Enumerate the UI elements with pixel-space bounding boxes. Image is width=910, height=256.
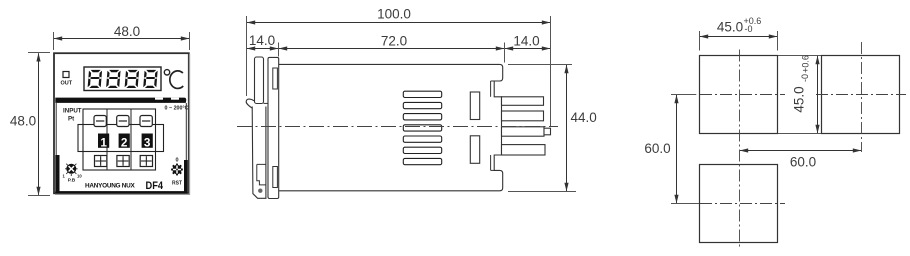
vent slot 1	[403, 91, 441, 97]
vent slot 4	[403, 125, 441, 131]
plus button col1	[95, 156, 107, 167]
dimension 45.0 +0.6/-0 (top of square 1)	[700, 16, 778, 51]
plus button col2	[117, 156, 129, 167]
degree C symbol	[164, 70, 169, 75]
bezel slot top	[273, 68, 278, 89]
key 3	[142, 134, 153, 150]
internal board slot bottom	[470, 136, 479, 164]
dimension 48.0 (left height of front view)	[10, 53, 50, 196]
inner bezel edge lines	[55, 103, 57, 156]
key 1	[98, 134, 109, 150]
svg-text:RST: RST	[172, 181, 182, 187]
cutout square 3 (top right)	[822, 56, 900, 134]
keypad column dividers	[106, 109, 108, 170]
internal board slot top	[470, 92, 479, 120]
svg-text:P.B: P.B	[68, 178, 76, 184]
svg-text:DF4: DF4	[146, 180, 164, 192]
bezel black left bar	[55, 155, 59, 193]
dimension 14.0 (terminals)	[505, 34, 550, 49]
dimension 60.0 (horizontal between squares 1-3)	[740, 151, 861, 170]
terminal pin 2	[502, 111, 544, 121]
centerline vertical squares 1-2	[739, 50, 741, 249]
7-seg digit 2	[106, 70, 121, 88]
svg-text:INPUT: INPUT	[63, 108, 82, 115]
bezel black right bar	[184, 160, 188, 193]
7-seg digit 1	[88, 70, 103, 88]
clip screw	[258, 189, 262, 193]
svg-text:100.0: 100.0	[377, 7, 411, 22]
svg-text:2: 2	[121, 135, 128, 149]
front panel outer shadow line	[55, 54, 190, 194]
svg-text:45.0: 45.0	[717, 20, 743, 35]
svg-text:72.0: 72.0	[381, 34, 407, 49]
svg-text:60.0: 60.0	[790, 155, 816, 170]
svg-text:14.0: 14.0	[249, 33, 275, 48]
svg-text:0 ~ 200°C: 0 ~ 200°C	[165, 106, 189, 112]
dimension 72.0 (case)	[279, 34, 505, 63]
svg-text:3: 3	[144, 135, 151, 149]
clip leg	[252, 107, 266, 199]
svg-text:48.0: 48.0	[10, 114, 36, 129]
cutout square 1 (top left)	[700, 56, 778, 134]
centerline horizontal square 2	[700, 203, 785, 205]
terminal pin 4	[502, 145, 546, 155]
keypad outer box	[83, 109, 156, 170]
svg-text:44.0: 44.0	[571, 110, 597, 125]
middle row band	[78, 125, 164, 152]
svg-text:Pt: Pt	[68, 116, 74, 123]
centerline vertical square 3	[861, 42, 863, 152]
svg-text:14.0: 14.0	[513, 34, 539, 49]
plus button col3	[140, 156, 152, 167]
svg-text:45.0: 45.0	[792, 86, 807, 112]
svg-text:+0.6: +0.6	[801, 55, 811, 73]
terminal pin 3 (center, long)	[502, 127, 545, 136]
case rear neck lines	[490, 81, 492, 97]
dimension 45.0 +0.6/-0 (right of square 1, rotated)	[778, 55, 821, 133]
front bezel (side)	[268, 57, 279, 198]
7-seg digit 4	[143, 70, 158, 88]
vent slot 2	[403, 102, 441, 108]
RST adjuster	[171, 158, 183, 187]
key 2	[119, 134, 130, 150]
rocker button col1	[94, 116, 106, 127]
rocker button col2	[117, 116, 129, 127]
svg-text:48.0: 48.0	[114, 24, 140, 39]
dimension 60.0 (vertical between squares 1-2)	[644, 95, 699, 204]
clip leg cutout	[257, 164, 266, 185]
bezel black bottom bar	[55, 191, 187, 193]
svg-text:1: 1	[100, 135, 107, 149]
dimension 14.0 (bezel)	[247, 33, 279, 57]
bezel slot bottom	[273, 167, 278, 188]
clip hook	[246, 99, 254, 109]
svg-text:0: 0	[175, 158, 178, 164]
svg-text:10: 10	[77, 174, 82, 179]
vent slot 5	[403, 136, 441, 142]
vent slot 6	[403, 147, 441, 153]
7-seg digit 3	[125, 70, 140, 88]
7-seg display box	[84, 67, 161, 91]
centerline horizontal square 3	[816, 94, 906, 96]
svg-text:-0: -0	[800, 74, 810, 82]
case outline	[279, 64, 503, 190]
vent slot 3	[403, 114, 441, 120]
center line of side view	[237, 126, 558, 128]
dimension 44.0 (case height)	[508, 65, 597, 192]
svg-text:OUT: OUT	[60, 81, 72, 87]
display window divider band	[55, 98, 150, 103]
rocker button col3	[140, 116, 152, 127]
mounting clip spring	[255, 57, 264, 104]
svg-text:-0: -0	[745, 24, 753, 34]
OUT indicator square	[63, 72, 69, 78]
vent slot 7	[403, 158, 441, 164]
centerline horizontal square 1	[700, 94, 785, 96]
terminal pin 1	[502, 97, 544, 106]
dimension 48.0 (top width of front view)	[54, 24, 190, 50]
svg-text:60.0: 60.0	[644, 141, 670, 156]
cutout square 2 (bottom)	[700, 165, 778, 243]
front panel outer frame	[54, 53, 189, 193]
dimension 100.0 (total depth)	[247, 7, 551, 127]
svg-text:HANYOUNG NUX: HANYOUNG NUX	[85, 182, 136, 189]
P.B potentiometer	[63, 164, 83, 184]
